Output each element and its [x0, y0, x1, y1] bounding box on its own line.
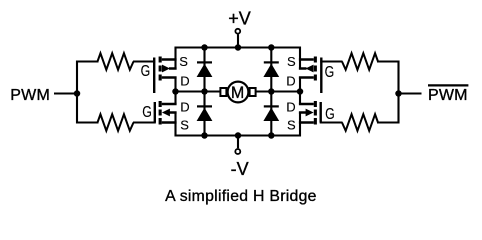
wire PWMbar input right	[399, 92, 422, 94]
wire motor right lead	[256, 90, 301, 92]
resistor R3 upper-right	[342, 53, 378, 70]
svg-text:D: D	[180, 99, 189, 114]
transistor Q3 upper-right P-MOSFET	[299, 57, 321, 94]
node top rail right diode junction	[268, 44, 275, 51]
wire lower-left resistor to gate	[133, 121, 156, 123]
transistor Q4 lower-right N-MOSFET	[299, 101, 321, 125]
node left drain junction	[172, 88, 179, 95]
wire PWM input left	[54, 92, 77, 94]
node left diode mid junction	[201, 88, 208, 95]
wire lower-right drain lead vertical	[299, 92, 301, 105]
wire upper-left drain lead vertical	[174, 78, 176, 92]
svg-text:+V: +V	[228, 9, 251, 29]
svg-text:G: G	[325, 64, 335, 81]
svg-text:-V: -V	[231, 159, 249, 179]
node bottom rail left diode junction	[201, 132, 208, 139]
svg-text:PWM: PWM	[10, 87, 50, 104]
motor M1	[220, 82, 255, 103]
svg-text:D: D	[180, 73, 189, 88]
wire motor left lead	[176, 90, 221, 92]
svg-text:G: G	[141, 63, 151, 80]
wire upper-right drain lead vertical	[299, 78, 301, 92]
wire upper-left resistor to gate	[133, 60, 155, 62]
wire right diode rail	[270, 48, 272, 136]
wire lower-left drain lead vertical	[174, 92, 176, 105]
wire -V stub	[237, 136, 239, 149]
node PWMbar label	[428, 85, 468, 104]
transistor Q2 lower-left N-MOSFET	[155, 101, 177, 125]
svg-text:S: S	[180, 117, 189, 132]
wire left riser with corners to both resistors	[77, 62, 99, 123]
diode D2 lower-left flyback	[197, 106, 213, 121]
svg-text:A simplified H Bridge: A simplified H Bridge	[165, 188, 317, 205]
node top rail left diode junction	[201, 44, 208, 51]
wire bottom rail with left and right corner rises	[176, 113, 301, 136]
node PWM junction	[74, 90, 81, 97]
wire top rail with left and right corner drops	[176, 48, 301, 70]
svg-text:PWM: PWM	[428, 87, 468, 104]
diode D1 upper-left flyback	[197, 62, 213, 77]
svg-text:S: S	[287, 54, 296, 69]
node +V terminal circle	[235, 29, 240, 34]
node PWMbar junction	[395, 90, 402, 97]
svg-text:D: D	[286, 74, 295, 89]
wire lower-right gate to resistor	[320, 121, 343, 123]
svg-text:S: S	[287, 117, 296, 132]
node right drain junction	[297, 88, 304, 95]
resistor R1 upper-left	[98, 53, 134, 70]
svg-text:S: S	[179, 54, 188, 69]
svg-text:G: G	[325, 106, 335, 123]
node bottom rail right diode junction	[268, 132, 275, 139]
wire right riser with corners to both resistors	[377, 62, 399, 123]
transistor Q1 upper-left P-MOSFET	[154, 57, 176, 94]
node right diode mid junction	[268, 88, 275, 95]
resistor R2 lower-left	[98, 114, 134, 131]
resistor R4 lower-right	[342, 114, 378, 131]
svg-text:D: D	[286, 99, 295, 114]
wire upper-right gate to resistor	[320, 60, 342, 62]
node top rail +V junction	[235, 44, 242, 51]
node bottom rail -V junction	[235, 132, 242, 139]
wire +V stub	[237, 34, 239, 47]
diode D3 upper-right flyback	[263, 62, 279, 77]
wire left diode rail	[203, 48, 205, 136]
diode D4 lower-right flyback	[263, 106, 279, 121]
svg-text:G: G	[142, 104, 152, 121]
svg-text:M: M	[231, 83, 244, 102]
node -V terminal circle	[235, 149, 240, 154]
